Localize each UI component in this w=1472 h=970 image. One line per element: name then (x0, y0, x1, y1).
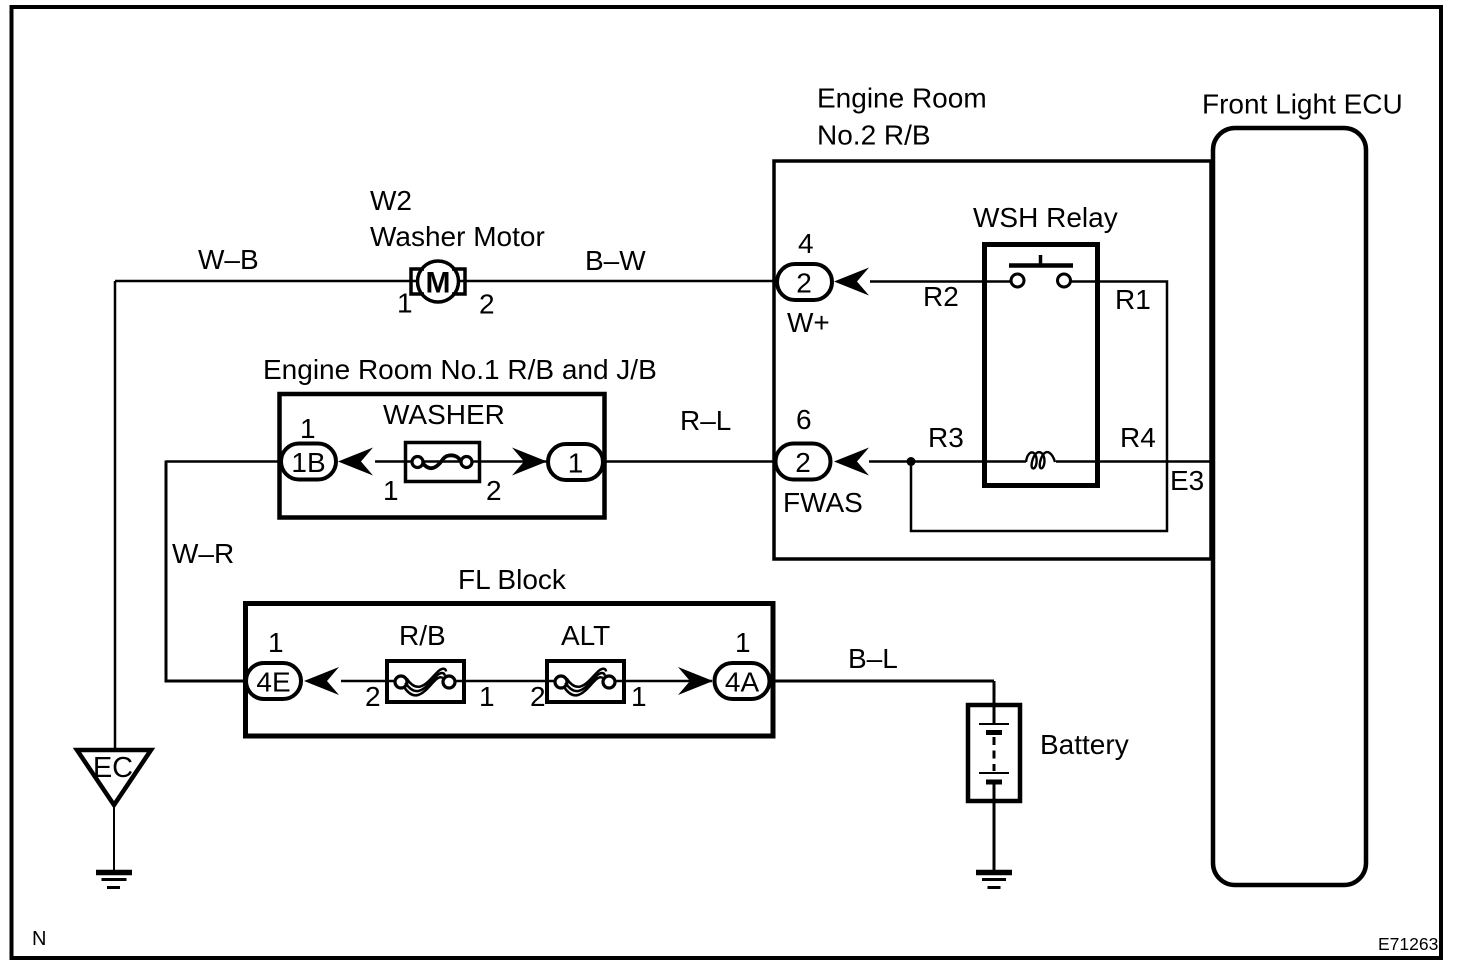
svg-text:R–L: R–L (680, 405, 731, 436)
svg-text:4: 4 (798, 228, 814, 259)
box Engine Room No.1 R/B and J/B (280, 394, 605, 518)
arrow into 1B (338, 448, 373, 476)
connector W+ pin 4/2 (777, 264, 832, 300)
wire W-R (1B down to 4E) (166, 461, 247, 682)
fusible link ALT (547, 661, 624, 702)
svg-text:4A: 4A (725, 667, 760, 698)
svg-text:2: 2 (479, 289, 495, 320)
svg-text:No.2 R/B: No.2 R/B (817, 120, 931, 151)
wire W-B (net W-B, y=281 from corner to motor and on to connector W+) (115, 280, 777, 283)
wire EC to ground (113, 805, 115, 870)
ground battery (976, 873, 1012, 888)
svg-text:Washer Motor: Washer Motor (370, 221, 545, 252)
wire vertical W-B drop to ground EC (114, 281, 117, 751)
svg-text:N: N (32, 928, 46, 950)
svg-text:2: 2 (365, 681, 381, 712)
svg-text:FL Block: FL Block (458, 564, 567, 595)
svg-text:2: 2 (796, 268, 812, 299)
box Engine Room No.2 R/B (774, 161, 1211, 559)
arrow into FWAS (834, 448, 869, 476)
wire R3 / R4 to ECU pin E3 (869, 460, 1213, 463)
svg-text:1: 1 (383, 475, 399, 506)
connector FWAS pin 6/2 (776, 444, 831, 480)
svg-text:1: 1 (479, 681, 495, 712)
svg-text:1B: 1B (291, 447, 325, 478)
wire from 1B to W-R corner (166, 460, 282, 463)
svg-text:Engine Room No.1 R/B and J/B: Engine Room No.1 R/B and J/B (263, 354, 657, 385)
ground EC triangle (77, 750, 151, 805)
svg-text:W2: W2 (370, 185, 412, 216)
connector 1 (washer output) (548, 444, 603, 480)
wire R2 (870, 280, 1011, 283)
svg-text:ALT: ALT (561, 620, 610, 651)
wire across FL block (341, 680, 712, 683)
motor W2 washer motor (411, 261, 465, 302)
ground EC bars (96, 873, 132, 888)
svg-text:R1: R1 (1115, 284, 1151, 315)
wire R1 (switch to junction loop) (911, 282, 1167, 532)
svg-text:B–W: B–W (585, 245, 646, 276)
svg-text:B–L: B–L (848, 643, 898, 674)
connector 4E (246, 663, 301, 699)
ECU U1 Front Light ECU (1213, 128, 1366, 885)
wire B-L (772, 681, 994, 723)
arrow into 4E (304, 667, 339, 695)
svg-text:WASHER: WASHER (383, 399, 505, 430)
box FL Block (246, 604, 774, 737)
svg-text:Engine Room: Engine Room (817, 83, 987, 114)
svg-text:E3: E3 (1170, 465, 1204, 496)
battery (968, 705, 1020, 801)
svg-text:FWAS: FWAS (783, 487, 863, 518)
relay coil (1026, 452, 1055, 468)
svg-text:1: 1 (735, 627, 751, 658)
svg-text:R2: R2 (923, 281, 959, 312)
svg-text:W–B: W–B (198, 244, 259, 275)
arrow into W+ (834, 268, 869, 296)
svg-text:1: 1 (300, 413, 316, 444)
fuse WASHER (406, 443, 480, 482)
svg-text:6: 6 (796, 404, 812, 435)
svg-text:2: 2 (795, 447, 811, 478)
wire R-L (603, 460, 777, 463)
arrow out of fuse to connector 1 (512, 448, 547, 476)
svg-text:2: 2 (486, 475, 502, 506)
svg-text:1: 1 (631, 681, 647, 712)
svg-text:W+: W+ (787, 307, 830, 338)
relay WSH Relay box (985, 245, 1098, 486)
arrow into 4A (678, 667, 713, 695)
connector 4A (715, 663, 770, 699)
svg-text:WSH Relay: WSH Relay (973, 202, 1118, 233)
connector 1B (281, 444, 336, 480)
svg-text:E71263: E71263 (1378, 934, 1438, 954)
svg-text:R3: R3 (928, 422, 964, 453)
relay switch contacts (1009, 255, 1073, 287)
junction node on R3 wire (907, 457, 916, 466)
svg-text:2: 2 (530, 681, 546, 712)
fusible link R/B (387, 661, 464, 702)
svg-text:R4: R4 (1120, 422, 1156, 453)
svg-text:M: M (426, 267, 451, 300)
wire through washer fuse row (375, 460, 548, 463)
svg-text:Front Light ECU: Front Light ECU (1202, 89, 1403, 120)
svg-text:W–R: W–R (172, 538, 234, 569)
svg-text:EC: EC (93, 752, 133, 784)
svg-text:1: 1 (568, 448, 584, 479)
svg-text:R/B: R/B (399, 620, 446, 651)
svg-text:4E: 4E (256, 667, 290, 698)
svg-text:1: 1 (268, 627, 284, 658)
wire battery to ground (993, 801, 996, 870)
svg-text:1: 1 (397, 288, 413, 319)
svg-text:Battery: Battery (1040, 729, 1129, 760)
